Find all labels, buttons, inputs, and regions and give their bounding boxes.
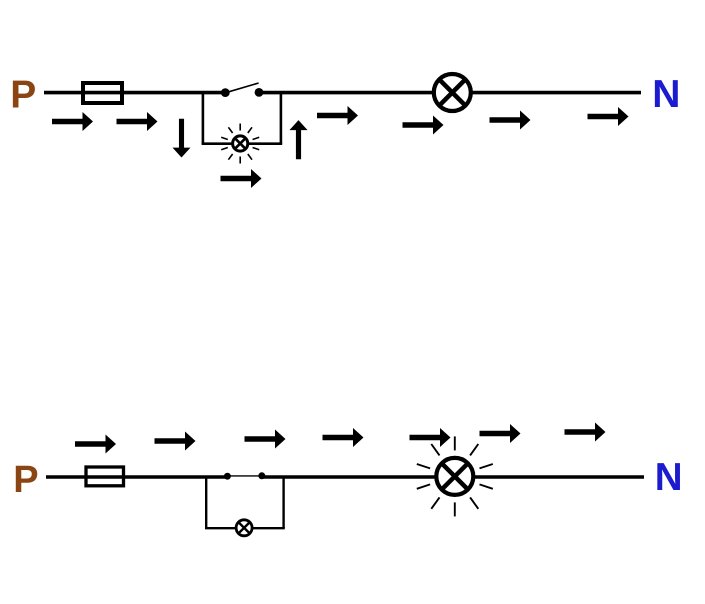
- current arrow 3 (top, down into branch): [173, 119, 191, 158]
- current arrow 8 (top, right of lamp L2): [490, 111, 531, 130]
- wire branch right vertical (bottom parallel branch): [282, 477, 284, 529]
- switch S1 right terminal node: [255, 88, 264, 97]
- current arrow 2 (top, below fuse): [117, 112, 158, 131]
- lamp L1 (parallel branch lamp, lit): [233, 136, 248, 151]
- current arrow 4 (top, below branch lamp): [221, 169, 262, 188]
- wire switch S2 to lamp L4 (bottom main wire, middle segment): [262, 475, 438, 479]
- switch S1 blade (open): [227, 83, 259, 92]
- switch S1 left terminal node: [221, 88, 230, 97]
- lamp L3 (bottom branch lamp, off): [236, 520, 252, 536]
- fuse F1 (top circuit): [83, 83, 122, 103]
- current arrow 7 (top, left of lamp L2): [403, 116, 444, 135]
- lamp L4 glow rays: [417, 436, 493, 516]
- switch S2 right terminal node: [258, 472, 265, 479]
- lamp L2 (top main line lamp, off): [434, 74, 471, 111]
- switch S2 blade (closed): [227, 475, 261, 477]
- svg-text:P: P: [10, 73, 36, 116]
- lamp L1 glow rays: [221, 124, 259, 164]
- current arrow 6 (top, right of branch): [317, 106, 358, 125]
- current arrow 5 (bottom): [410, 428, 451, 447]
- wire branch bottom left (top parallel branch): [202, 142, 232, 145]
- wire lamp L4 to N (bottom main wire, right segment): [472, 475, 644, 479]
- current arrow 2 (bottom): [155, 432, 196, 451]
- svg-text:N: N: [652, 73, 680, 116]
- wire branch bottom right (top parallel branch): [249, 142, 282, 145]
- wire P to switch S2 (bottom main wire, left segment): [46, 475, 226, 479]
- wire switch S1 to lamp L2 (top main wire, middle segment): [259, 91, 436, 95]
- wire P to switch S1 (top main wire, left segment): [44, 91, 222, 95]
- fuse F2 (bottom circuit): [86, 467, 124, 486]
- current arrow 5 (top, up out of branch): [289, 120, 307, 159]
- current arrow 1 (top, right of P): [52, 112, 93, 131]
- wire branch left vertical (top parallel branch): [202, 93, 205, 144]
- wire branch left vertical (bottom parallel branch): [205, 477, 207, 529]
- wire branch bottom left (bottom parallel branch): [205, 527, 236, 529]
- svg-text:P: P: [13, 459, 38, 501]
- lamp L4 (bottom main line lamp, lit): [436, 458, 473, 495]
- wire branch bottom right (bottom parallel branch): [253, 527, 285, 529]
- current arrow 7 (bottom): [565, 423, 606, 442]
- svg-text:N: N: [655, 456, 683, 499]
- current arrow 6 (bottom): [480, 424, 521, 443]
- switch S2 left terminal node: [224, 473, 231, 480]
- wire lamp L2 to N (top main wire, right segment): [470, 91, 641, 95]
- current arrow 1 (bottom): [75, 435, 116, 454]
- wire branch right vertical (top parallel branch): [280, 93, 283, 144]
- current arrow 4 (bottom): [323, 428, 364, 447]
- current arrow 3 (bottom): [245, 430, 286, 449]
- current arrow 9 (top, before N): [588, 107, 629, 126]
